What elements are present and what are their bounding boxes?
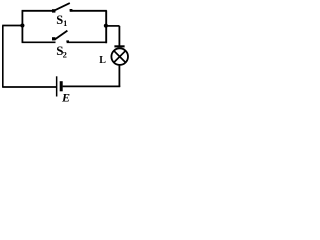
svg-text:L: L: [99, 55, 106, 66]
svg-text:2: 2: [63, 49, 67, 59]
svg-text:E: E: [61, 91, 70, 105]
svg-text:1: 1: [63, 19, 67, 28]
